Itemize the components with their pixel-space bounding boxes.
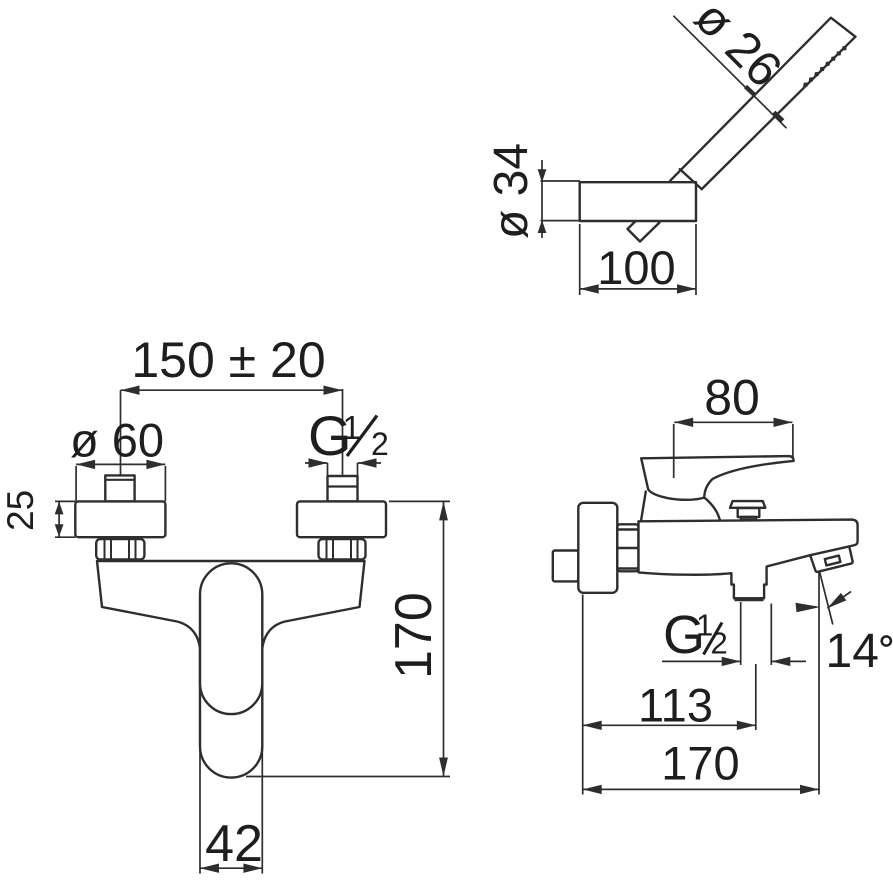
svg-text:ø 60: ø 60 (70, 414, 164, 467)
svg-text:25: 25 (0, 490, 41, 531)
svg-text:ø 34: ø 34 (485, 143, 538, 239)
svg-text:113: 113 (638, 679, 713, 732)
svg-text:150 ± 20: 150 ± 20 (131, 332, 325, 388)
svg-text:170: 170 (661, 737, 739, 790)
svg-text:42: 42 (205, 815, 263, 873)
svg-text:2: 2 (711, 626, 728, 661)
svg-text:80: 80 (704, 370, 760, 426)
svg-text:14: 14 (826, 625, 879, 678)
svg-text:170: 170 (385, 592, 443, 679)
svg-text:100: 100 (597, 241, 675, 294)
svg-text:2: 2 (371, 426, 389, 462)
